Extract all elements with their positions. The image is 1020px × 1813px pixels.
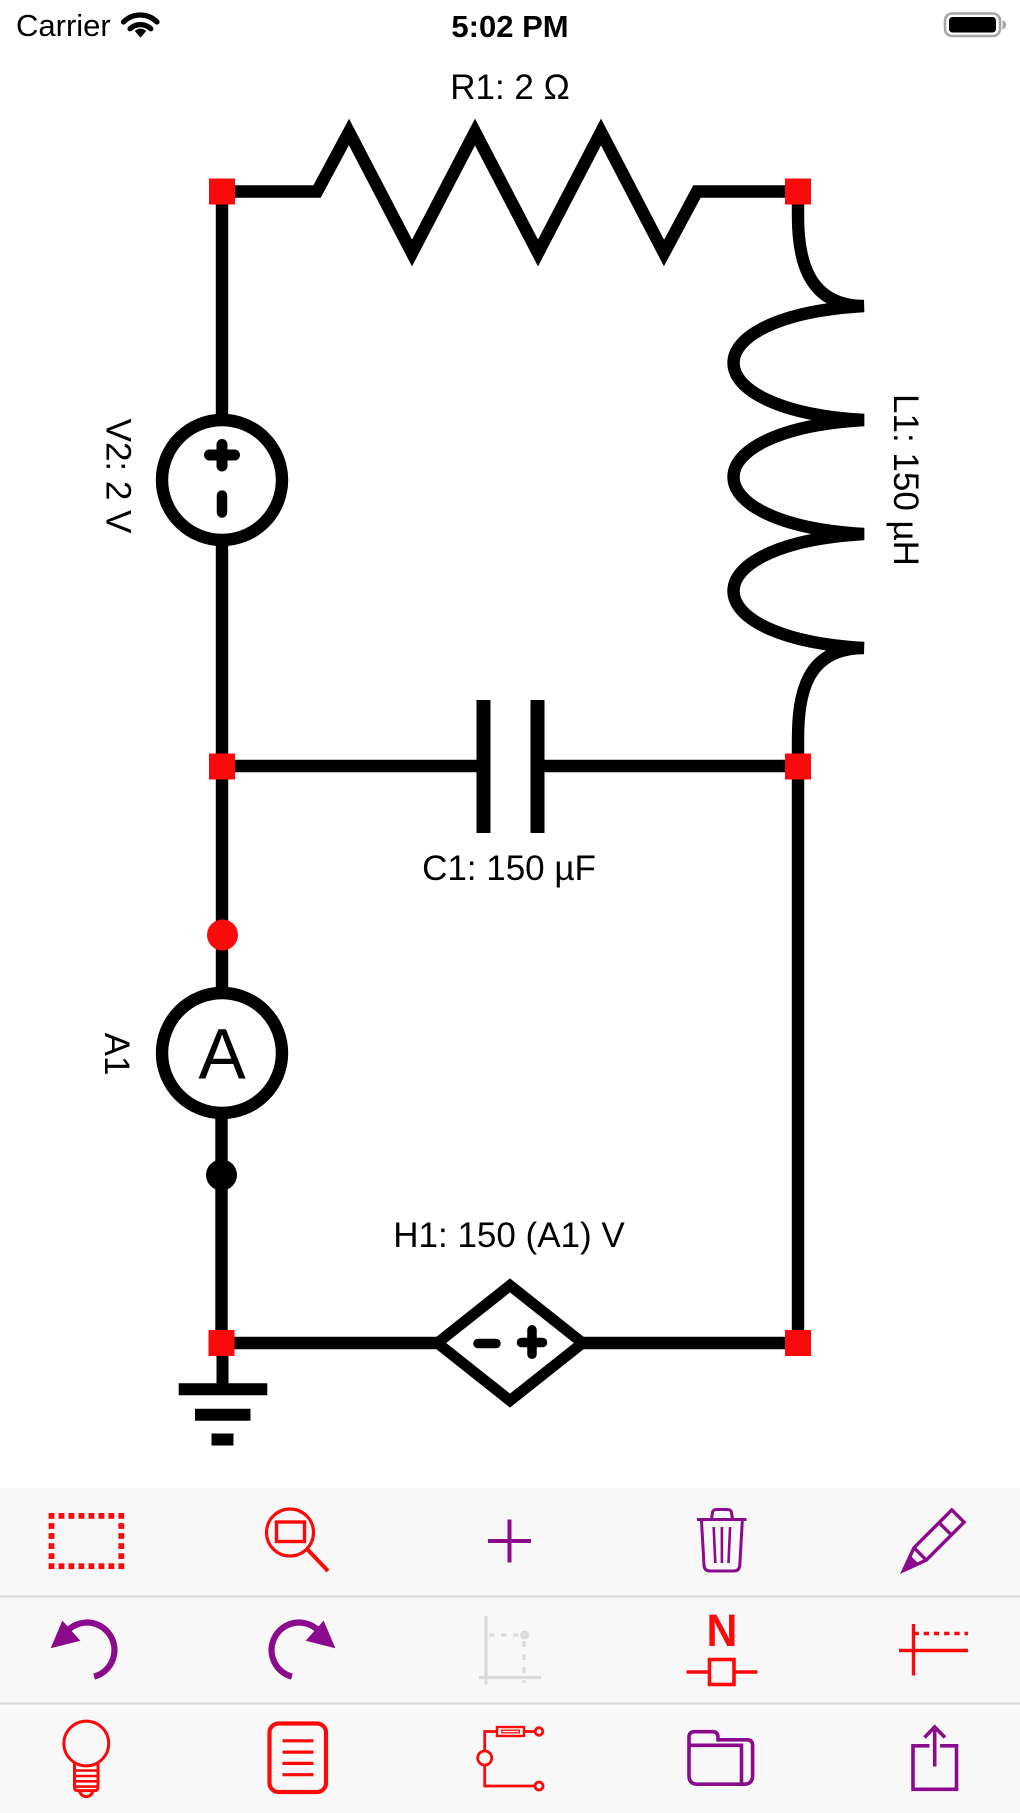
- node top-left: [209, 179, 235, 205]
- node bottom-right: [785, 1330, 811, 1356]
- red terminal dot: [207, 920, 238, 951]
- icon undo: [52, 1622, 115, 1677]
- icon N-label: [687, 1606, 758, 1684]
- icon pencil: [897, 1510, 964, 1577]
- svg-text:H1: 150 (A1) V: H1: 150 (A1) V: [393, 1216, 625, 1255]
- svg-text:N: N: [707, 1606, 738, 1656]
- capacitor C1 plates: [484, 700, 538, 833]
- H1 minus: [478, 1339, 496, 1349]
- icon share: [913, 1727, 957, 1789]
- svg-text:Carrier: Carrier: [16, 8, 111, 43]
- node mid-left: [209, 754, 235, 780]
- wire bottom right: [583, 1337, 798, 1349]
- icon axis: [899, 1624, 968, 1676]
- battery: [945, 14, 1000, 37]
- wire bottom left: [222, 1337, 439, 1349]
- V2 minus: [217, 496, 228, 513]
- icon netlist: [270, 1724, 327, 1793]
- icon subcircuit: [478, 1727, 543, 1790]
- toolbar: [0, 1488, 1020, 1813]
- V2 plus: [210, 445, 235, 467]
- ground: [179, 1343, 268, 1440]
- wire cap right: [544, 760, 798, 772]
- node bottom-left: [209, 1330, 235, 1356]
- H1 plus: [522, 1330, 543, 1355]
- wire cap left: [222, 760, 477, 772]
- svg-text:5:02 PM: 5:02 PM: [451, 9, 568, 44]
- svg-text:L1: 150 µH: L1: 150 µH: [886, 394, 925, 566]
- wire left top: [216, 192, 228, 422]
- icon folder: [689, 1732, 753, 1785]
- wire left mid: [216, 540, 228, 766]
- wire right vertical: [792, 766, 804, 1343]
- svg-text:R1: 2 Ω: R1: 2 Ω: [450, 68, 570, 107]
- icon add: [488, 1520, 531, 1563]
- node top-right: [785, 179, 811, 205]
- voltage source V2: [162, 420, 282, 540]
- resistor R1: [222, 132, 798, 253]
- icon redo: [272, 1622, 335, 1677]
- icon bulb: [64, 1721, 109, 1796]
- wire left bottom: [215, 1113, 227, 1343]
- icon marquee: [49, 1513, 125, 1569]
- icon trash: [697, 1510, 747, 1572]
- svg-text:A1: A1: [97, 1033, 136, 1076]
- icon zoom-rect: [267, 1509, 329, 1571]
- svg-text:A: A: [198, 1016, 246, 1095]
- icon grid (disabled): [479, 1616, 541, 1685]
- node squares: [209, 179, 812, 1357]
- CCVS H1 diamond: [437, 1285, 582, 1400]
- black terminal dot: [206, 1160, 237, 1191]
- svg-text:C1: 150 µF: C1: 150 µF: [422, 849, 596, 888]
- node mid-right: [785, 754, 811, 780]
- status bar: [16, 8, 1006, 44]
- svg-text:V2: 2 V: V2: 2 V: [99, 419, 138, 534]
- wifi icon: [124, 15, 158, 29]
- ammeter A1: [162, 993, 282, 1113]
- inductor L1: [734, 192, 865, 767]
- wire left low: [216, 766, 228, 993]
